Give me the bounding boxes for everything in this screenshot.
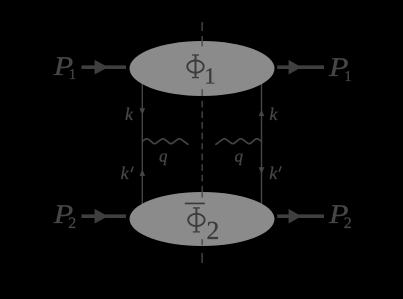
svg-text:1: 1 (344, 69, 352, 85)
wire: left P2 incoming line (82, 214, 127, 218)
arrow on right P2 line (289, 209, 302, 224)
svg-text:q: q (159, 147, 168, 166)
arrow k (up) on right leg (259, 110, 265, 117)
svg-text:1: 1 (204, 64, 216, 89)
label P2 (left) (53, 199, 77, 232)
unitarity cut dashes crossing blob Phi2bar (201, 192, 203, 245)
svg-text:k: k (269, 163, 278, 183)
photon q (left wavy line) (142, 139, 188, 145)
svg-text:k: k (269, 104, 278, 124)
wire: left quark leg (141, 84, 143, 205)
unitarity cut dashes crossing blob Phi1 (201, 41, 203, 96)
label P1 (right) (328, 52, 352, 85)
label k' (right) (269, 163, 281, 183)
label k (right) (269, 104, 278, 124)
wire: right P1 outgoing line (277, 65, 324, 69)
svg-text:1: 1 (69, 67, 77, 83)
svg-text:2: 2 (68, 215, 76, 232)
label Phi2 bar (185, 203, 220, 245)
arrow k' (up) on left leg (140, 169, 146, 176)
blob Phi1 (upper hadron blob) (130, 41, 275, 96)
label k (left) (125, 104, 134, 124)
photon q (right wavy line) (216, 139, 262, 145)
label q (right) (235, 147, 244, 166)
arrow k (down) on left leg (140, 108, 146, 115)
label P1 (left) (53, 51, 77, 83)
label P2 (right) (328, 199, 352, 232)
wire: right quark leg (261, 84, 263, 205)
label k' (left) (121, 163, 133, 183)
wire: right P2 outgoing line (277, 214, 324, 218)
arrow k' (down) on right leg (259, 167, 265, 174)
svg-text:2: 2 (206, 216, 219, 245)
svg-text:k: k (125, 104, 134, 124)
svg-text:k: k (121, 163, 130, 183)
svg-text:q: q (235, 147, 244, 166)
wire: left P1 incoming line (82, 65, 127, 69)
label Phi1 (187, 55, 216, 89)
blob Phi2bar (lower hadron blob) (130, 192, 275, 246)
label q (left) (159, 147, 168, 166)
arrow on left P2 line (95, 209, 109, 224)
arrow on right P1 line (289, 60, 302, 75)
svg-text:2: 2 (344, 215, 352, 232)
node: unitarity cut (dashed vertical line, black-region dashes) (201, 22, 203, 263)
arrow on left P1 line (95, 60, 109, 75)
